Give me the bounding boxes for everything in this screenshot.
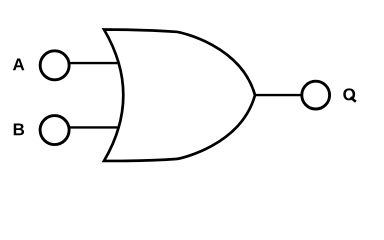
label Q tail [350, 97, 355, 102]
wire input A [70, 62, 119, 64]
wire output Q [255, 94, 302, 96]
wire input B [70, 126, 119, 128]
terminal circle A [40, 51, 69, 80]
label B [14, 124, 24, 136]
terminal circle Q [302, 81, 330, 109]
label Q ring [343, 88, 355, 100]
label A [13, 59, 24, 71]
or-gate U1 body [104, 30, 255, 161]
terminal circle B [40, 116, 69, 145]
